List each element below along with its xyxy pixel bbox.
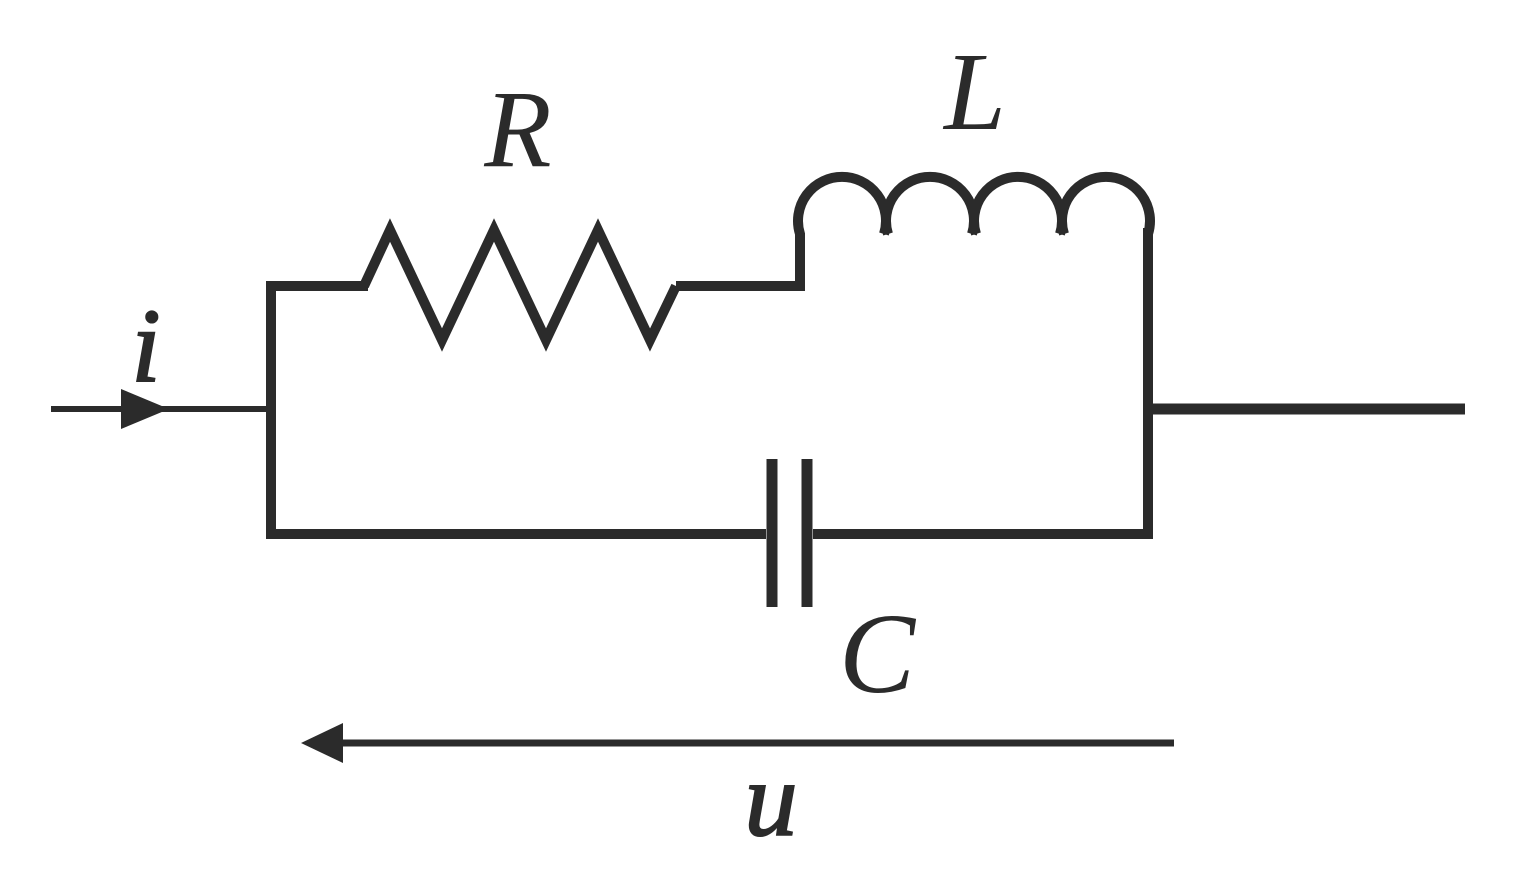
wire: left input lead [51, 406, 271, 412]
svg-text:i: i [131, 287, 160, 404]
wire: left vertical branch junction [266, 281, 276, 538]
wire: top rail between resistor and inductor [676, 281, 800, 291]
svg-text:u: u [745, 741, 798, 858]
svg-text:C: C [839, 590, 917, 717]
svg-text:R: R [483, 68, 551, 190]
current arrowhead i [121, 389, 169, 429]
wire: bottom rail left of capacitor [266, 529, 766, 539]
capacitor C [772, 459, 807, 607]
voltage reference arrow u [301, 723, 1174, 763]
svg-text:L: L [942, 31, 1006, 154]
wire: bottom rail right of capacitor [813, 529, 1153, 539]
inductor L [798, 177, 1150, 291]
wire: top rail from left junction to resistor [266, 281, 368, 291]
wire: right output lead [1148, 404, 1465, 415]
resistor R [364, 230, 676, 340]
wire: right vertical branch junction [1143, 228, 1153, 539]
